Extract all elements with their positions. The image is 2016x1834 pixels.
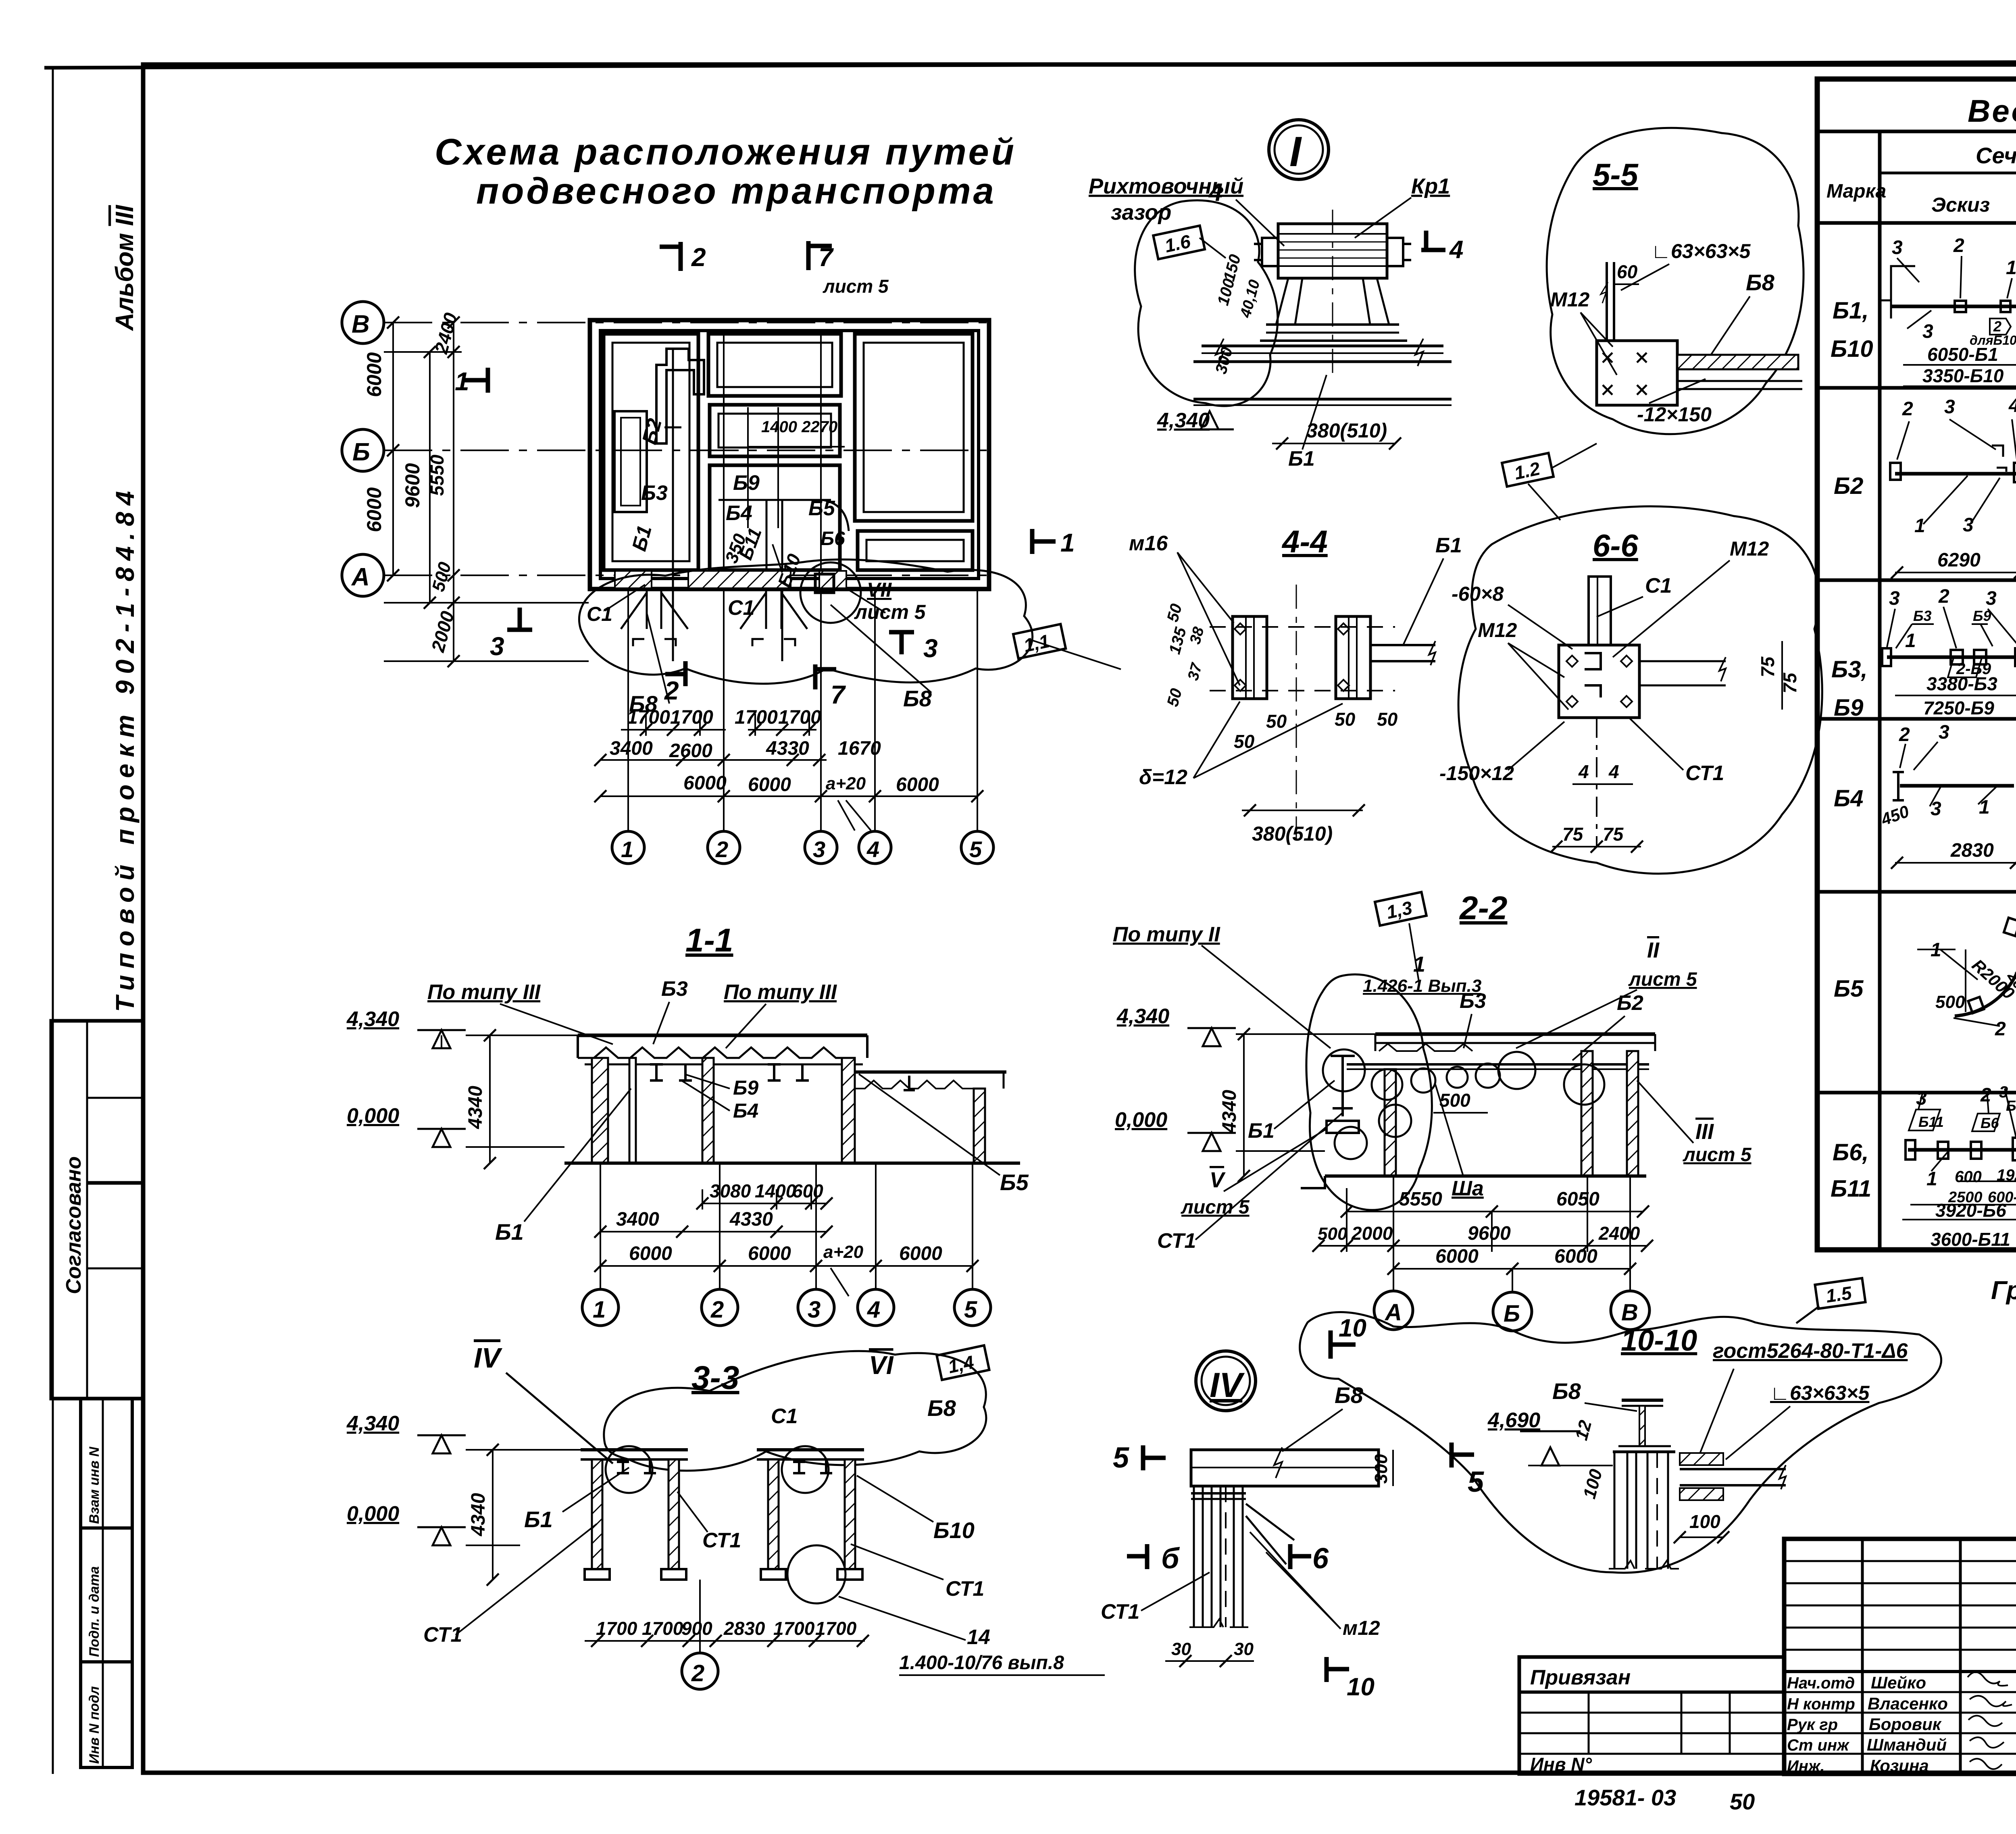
svg-text:6000: 6000 [1435,1246,1479,1267]
svg-text:Б10: Б10 [1831,336,1873,362]
svg-text:С1: С1 [1645,574,1672,597]
svg-text:3: 3 [1889,588,1900,609]
svg-text:4330: 4330 [729,1209,773,1230]
svg-text:3380-Б3: 3380-Б3 [1926,673,1997,694]
svg-text:7: 7 [818,243,834,272]
svg-text:10: 10 [1347,1673,1375,1701]
svg-text:Б1: Б1 [1248,1119,1275,1143]
svg-text:5: 5 [969,837,982,862]
svg-text:VII: VII [867,579,892,601]
svg-text:2: 2 [1980,1085,1991,1106]
svg-text:4330: 4330 [766,738,809,759]
svg-text:м16: м16 [1129,532,1168,555]
svg-text:Б1: Б1 [495,1219,524,1245]
svg-text:3: 3 [808,1297,821,1323]
svg-text:0,000: 0,000 [1115,1108,1167,1132]
svg-text:Б6: Б6 [821,528,845,550]
svg-text:Б5: Б5 [1834,976,1864,1002]
svg-text:Б1: Б1 [524,1507,553,1532]
svg-text:Шa: Шa [1452,1177,1484,1200]
svg-text:2: 2 [664,676,679,705]
svg-text:500: 500 [1318,1224,1347,1244]
svg-text:6000: 6000 [748,774,791,795]
svg-text:4,690: 4,690 [1487,1409,1540,1432]
svg-text:Б3: Б3 [1913,608,1932,624]
svg-text:4340: 4340 [468,1493,489,1536]
svg-text:6-6: 6-6 [1593,528,1638,563]
svg-text:-150×12: -150×12 [1439,762,1514,785]
svg-text:Б3: Б3 [661,977,688,1001]
svg-text:Б8: Б8 [927,1395,956,1421]
svg-text:5550: 5550 [1399,1189,1442,1210]
svg-text:-12×150: -12×150 [1637,403,1712,426]
svg-text:Б8: Б8 [1746,270,1775,295]
svg-text:30: 30 [1234,1639,1254,1659]
svg-text:Кр1: Кр1 [1411,174,1450,198]
svg-text:СТ1: СТ1 [1157,1229,1196,1253]
svg-text:3: 3 [490,632,504,661]
svg-text:12: 12 [1571,1418,1595,1442]
svg-text:300: 300 [1371,1454,1391,1484]
svg-text:Б9: Б9 [1973,608,1991,624]
svg-text:3400: 3400 [610,738,653,759]
svg-text:6000: 6000 [363,352,385,397]
svg-text:2-2: 2-2 [1459,890,1508,926]
svg-text:600: 600 [792,1180,823,1201]
svg-text:1: 1 [1905,630,1916,652]
svg-text:Б10: Б10 [933,1518,975,1543]
svg-text:3-3: 3-3 [691,1359,739,1396]
svg-text:Сечение: Сечение [1976,143,2016,168]
svg-text:37: 37 [1185,661,1206,683]
svg-text:Боровик: Боровик [1869,1715,1942,1734]
svg-text:2000: 2000 [1351,1223,1393,1244]
svg-text:А: А [1384,1299,1402,1326]
svg-text:Шейко: Шейко [1871,1673,1926,1692]
svg-text:Эскиз: Эскиз [1931,194,1990,216]
svg-text:7250-Б9: 7250-Б9 [1923,697,1994,718]
svg-text:Инв N подл: Инв N подл [87,1686,102,1764]
svg-text:лист 5: лист 5 [1628,969,1697,990]
svg-text:2: 2 [710,1297,724,1323]
svg-text:1: 1 [1914,515,1925,537]
svg-text:Б1: Б1 [1435,534,1462,557]
svg-text:450: 450 [1878,801,1912,829]
svg-text:б: б [1161,1543,1180,1575]
svg-text:VI: VI [869,1351,894,1380]
svg-text:9600: 9600 [401,463,424,508]
svg-text:В: В [352,310,370,338]
svg-text:Рук гр: Рук гр [1787,1716,1838,1734]
svg-text:Б2: Б2 [638,416,666,447]
svg-text:1.5: 1.5 [1824,1282,1854,1307]
svg-text:гост5264-80-Т1-Δ6: гост5264-80-Т1-Δ6 [1713,1339,1908,1363]
svg-text:Б2: Б2 [1617,991,1643,1015]
svg-text:∟63×63×5: ∟63×63×5 [1651,240,1751,262]
svg-text:4: 4 [1578,761,1589,782]
svg-text:М12: М12 [1730,537,1769,560]
svg-text:0,000: 0,000 [347,1502,399,1526]
svg-text:5550: 5550 [427,454,448,496]
svg-text:3: 3 [1944,396,1955,418]
svg-text:0,000: 0,000 [347,1104,399,1128]
svg-text:М12: М12 [1550,288,1589,311]
svg-text:6000: 6000 [899,1243,942,1264]
svg-text:4: 4 [1608,761,1619,782]
svg-text:1: 1 [1979,797,1990,818]
svg-text:2: 2 [1902,398,1913,420]
svg-text:IV: IV [474,1342,502,1374]
svg-text:10-10: 10-10 [1621,1324,1697,1357]
svg-text:Б8: Б8 [903,686,932,711]
svg-text:60: 60 [1617,261,1638,282]
svg-text:1.400-10/76 вып.8: 1.400-10/76 вып.8 [899,1652,1064,1674]
svg-text:Б6: Б6 [1981,1115,1999,1131]
svg-text:1700: 1700 [670,707,713,728]
svg-text:50: 50 [1730,1789,1755,1814]
svg-text:1: 1 [621,837,633,862]
svg-text:Б6: Б6 [2006,1097,2016,1114]
svg-text:Ст инж: Ст инж [1787,1736,1850,1754]
svg-text:С1: С1 [771,1405,798,1428]
svg-text:3920-Б6: 3920-Б6 [1935,1200,2006,1221]
svg-text:∟63×63×5: ∟63×63×5 [1770,1382,1870,1404]
svg-text:2600: 2600 [669,740,712,762]
svg-text:6000: 6000 [896,774,939,795]
svg-text:Марка: Марка [1826,181,1886,202]
svg-text:Типовой проект 902-1-84.8: Типовой проект 902-1-84.84 [110,485,140,1012]
svg-text:1700: 1700 [815,1618,857,1639]
svg-text:Схема расположения путей: Схема расположения путей [435,131,1016,173]
svg-text:А: А [351,563,370,591]
svg-text:лист 5: лист 5 [1181,1197,1250,1218]
svg-text:1400: 1400 [755,1180,796,1201]
svg-text:1: 1 [1060,528,1075,557]
svg-text:2: 2 [691,243,706,272]
svg-text:Б11: Б11 [1918,1114,1944,1130]
svg-text:500: 500 [428,560,455,593]
svg-text:1: 1 [1413,952,1425,976]
svg-text:6050-Б1: 6050-Б1 [1927,344,1998,365]
svg-text:3350-Б10: 3350-Б10 [1922,365,2004,386]
svg-text:2830: 2830 [723,1618,765,1639]
svg-text:Согласовано: Согласовано [62,1156,85,1294]
svg-text:100: 100 [1214,277,1238,307]
svg-text:38: 38 [1187,625,1208,646]
svg-text:δ=12: δ=12 [1139,766,1187,789]
svg-text:В: В [1621,1299,1638,1326]
svg-text:1: 1 [1926,1168,1937,1190]
svg-text:2: 2 [715,837,728,862]
svg-text:Взам инв N: Взам инв N [87,1446,102,1524]
svg-text:6000: 6000 [683,772,727,794]
svg-text:4: 4 [867,1297,880,1323]
svg-text:Альбом III: Альбом III [111,204,139,331]
svg-text:5: 5 [1468,1466,1484,1498]
svg-text:100: 100 [1579,1467,1606,1501]
svg-text:Б11: Б11 [1831,1176,1871,1202]
svg-text:3: 3 [813,837,825,862]
svg-text:Б1,: Б1, [1833,298,1868,324]
svg-text:19581- 03: 19581- 03 [1574,1785,1676,1810]
svg-text:3: 3 [1939,722,1949,743]
svg-text:Привязан: Привязан [1530,1666,1631,1689]
svg-text:4: 4 [2008,395,2016,416]
svg-text:-60×8: -60×8 [1452,583,1504,605]
svg-text:6050: 6050 [1556,1189,1599,1210]
svg-text:Б9: Б9 [733,471,760,495]
svg-text:6290: 6290 [1937,550,1981,571]
svg-text:III: III [1695,1120,1714,1144]
svg-text:а+20: а+20 [826,774,866,793]
svg-text:Б1: Б1 [1288,447,1315,470]
svg-text:3: 3 [923,634,938,663]
svg-text:2: 2 [1899,724,1910,745]
svg-text:Б9: Б9 [733,1076,758,1099]
svg-text:380(510): 380(510) [1306,419,1387,442]
svg-text:Б9: Б9 [1834,695,1863,721]
svg-text:75: 75 [1757,656,1778,677]
svg-text:Б3: Б3 [641,481,668,505]
svg-text:По типу III: По типу III [427,980,541,1004]
svg-text:4-4: 4-4 [1281,524,1328,559]
svg-text:2: 2 [1953,235,1964,256]
svg-text:6000: 6000 [748,1243,791,1264]
svg-text:3: 3 [1963,514,1974,536]
svg-text:6000: 6000 [1554,1246,1597,1267]
svg-text:С1: С1 [587,603,612,625]
svg-text:5: 5 [1113,1442,1129,1474]
svg-text:1-1: 1-1 [685,922,733,959]
svg-text:50: 50 [1335,709,1356,730]
svg-text:5: 5 [964,1297,977,1323]
svg-text:50: 50 [1164,687,1185,708]
svg-text:3080: 3080 [710,1180,751,1201]
svg-text:1700: 1700 [773,1618,815,1639]
svg-text:СТ1: СТ1 [423,1623,462,1647]
svg-text:По типу II: По типу II [1113,923,1220,946]
svg-text:40,10: 40,10 [1237,278,1263,320]
svg-text:600: 600 [1955,1168,1982,1186]
svg-text:лист 5: лист 5 [823,276,889,297]
svg-text:75: 75 [1603,824,1624,845]
svg-text:4340: 4340 [1219,1090,1240,1133]
svg-text:Б3,: Б3, [1831,656,1867,683]
svg-text:1700: 1700 [596,1618,637,1639]
svg-text:4,340: 4,340 [1116,1005,1169,1028]
svg-text:5-5: 5-5 [1593,157,1639,192]
svg-text:2830: 2830 [1950,840,1994,861]
svg-text:3600-Б11: 3600-Б11 [1931,1229,2010,1250]
svg-text:2: 2 [1995,1018,2006,1040]
svg-text:Б1: Б1 [628,523,656,554]
svg-text:Шмандий: Шмандий [1867,1735,1947,1754]
svg-text:4,340: 4,340 [346,1412,399,1435]
svg-text:300: 300 [1212,345,1236,376]
svg-text:СТ1: СТ1 [946,1577,984,1601]
svg-text:500: 500 [1439,1090,1470,1111]
svg-text:Инж.: Инж. [1787,1757,1825,1775]
svg-text:2400: 2400 [1598,1223,1640,1244]
svg-text:2: 2 [691,1660,704,1686]
svg-text:1: 1 [593,1297,606,1323]
svg-text:1400 2270: 1400 2270 [761,418,837,436]
svg-text:V: V [1210,1168,1226,1192]
svg-text:50: 50 [1266,711,1287,732]
svg-text:Н контр: Н контр [1787,1695,1855,1713]
svg-text:4: 4 [1449,236,1463,264]
svg-text:10: 10 [1339,1314,1366,1342]
svg-text:II: II [1647,938,1660,962]
svg-text:1: 1 [455,367,469,396]
svg-text:Б: Б [352,438,370,466]
svg-text:СТ1: СТ1 [1101,1600,1139,1624]
svg-text:1700: 1700 [735,707,778,728]
svg-text:Б10: Б10 [774,551,805,590]
svg-text:380(510): 380(510) [1252,822,1333,845]
svg-text:2: 2 [1993,318,2001,335]
svg-text:50: 50 [1164,602,1185,624]
svg-text:3: 3 [1986,588,1997,609]
svg-text:Ведомость элементов: Ведомость элементов [1968,93,2016,129]
svg-text:2: 2 [1938,586,1949,607]
svg-text:По типу III: По типу III [724,980,837,1004]
svg-text:1920: 1920 [1997,1166,2016,1184]
svg-text:1700: 1700 [778,707,821,728]
svg-text:С1: С1 [728,596,754,620]
svg-text:Б: Б [1504,1301,1520,1327]
svg-text:М12: М12 [1478,619,1517,641]
svg-text:3400: 3400 [616,1209,659,1230]
svg-text:Б8: Б8 [1335,1382,1364,1408]
svg-text:135: 135 [1166,625,1190,656]
svg-text:Нач.отд: Нач.отд [1787,1674,1855,1692]
svg-text:1: 1 [2006,257,2016,279]
svg-text:Инв N°: Инв N° [1530,1754,1592,1775]
svg-text:Б4: Б4 [1834,785,1863,812]
svg-text:1: 1 [1931,939,1941,961]
svg-text:лист 5: лист 5 [1683,1144,1752,1166]
svg-text:а+20: а+20 [823,1242,864,1262]
svg-text:500: 500 [1935,992,1965,1012]
svg-text:Власенко: Власенко [1868,1694,1948,1713]
svg-text:Б4: Б4 [733,1099,758,1122]
svg-text:3: 3 [1931,798,1941,820]
svg-text:30: 30 [1171,1639,1191,1659]
svg-text:3: 3 [1922,321,1933,342]
svg-text:6000: 6000 [363,487,385,532]
svg-text:75: 75 [1562,824,1584,845]
svg-text:лист 5: лист 5 [854,601,926,623]
svg-text:подвесного транспорта: подвесного транспорта [476,171,996,212]
svg-text:100: 100 [1689,1511,1720,1532]
svg-text:4: 4 [866,837,879,862]
svg-text:Б2: Б2 [1834,473,1863,499]
svg-text:7: 7 [831,680,846,709]
svg-text:9600: 9600 [1468,1223,1511,1244]
svg-text:IV: IV [1210,1366,1245,1405]
svg-text:Подп. и дата: Подп. и дата [87,1566,102,1657]
svg-text:1670: 1670 [838,738,881,759]
svg-text:СТ1: СТ1 [702,1529,741,1552]
svg-text:I: I [1289,128,1302,175]
svg-text:900: 900 [681,1618,712,1639]
svg-text:Б6,: Б6, [1833,1139,1868,1166]
svg-text:Б5: Б5 [808,497,835,520]
svg-text:6000: 6000 [629,1243,672,1264]
svg-text:Б5: Б5 [1000,1170,1029,1195]
svg-text:50: 50 [1377,709,1398,730]
svg-text:1700: 1700 [642,1618,683,1639]
svg-text:4340: 4340 [465,1086,486,1129]
svg-text:6: 6 [1312,1543,1329,1575]
svg-text:3: 3 [1916,1088,1927,1109]
svg-text:3: 3 [1892,237,1903,258]
svg-text:1700: 1700 [627,707,670,728]
svg-text:Б3: Б3 [1460,989,1486,1013]
svg-text:14: 14 [967,1626,990,1649]
svg-text:4,340: 4,340 [346,1008,399,1031]
svg-text:зазор: зазор [1111,200,1171,225]
svg-text:СТ1: СТ1 [1685,762,1724,785]
svg-text:Грузоподъемность монорельса:: Грузоподъемность монорельса: [1991,1276,2016,1305]
svg-text:Б8: Б8 [1552,1378,1581,1404]
svg-text:Козина: Козина [1870,1756,1929,1775]
svg-text:м12: м12 [1343,1617,1380,1639]
